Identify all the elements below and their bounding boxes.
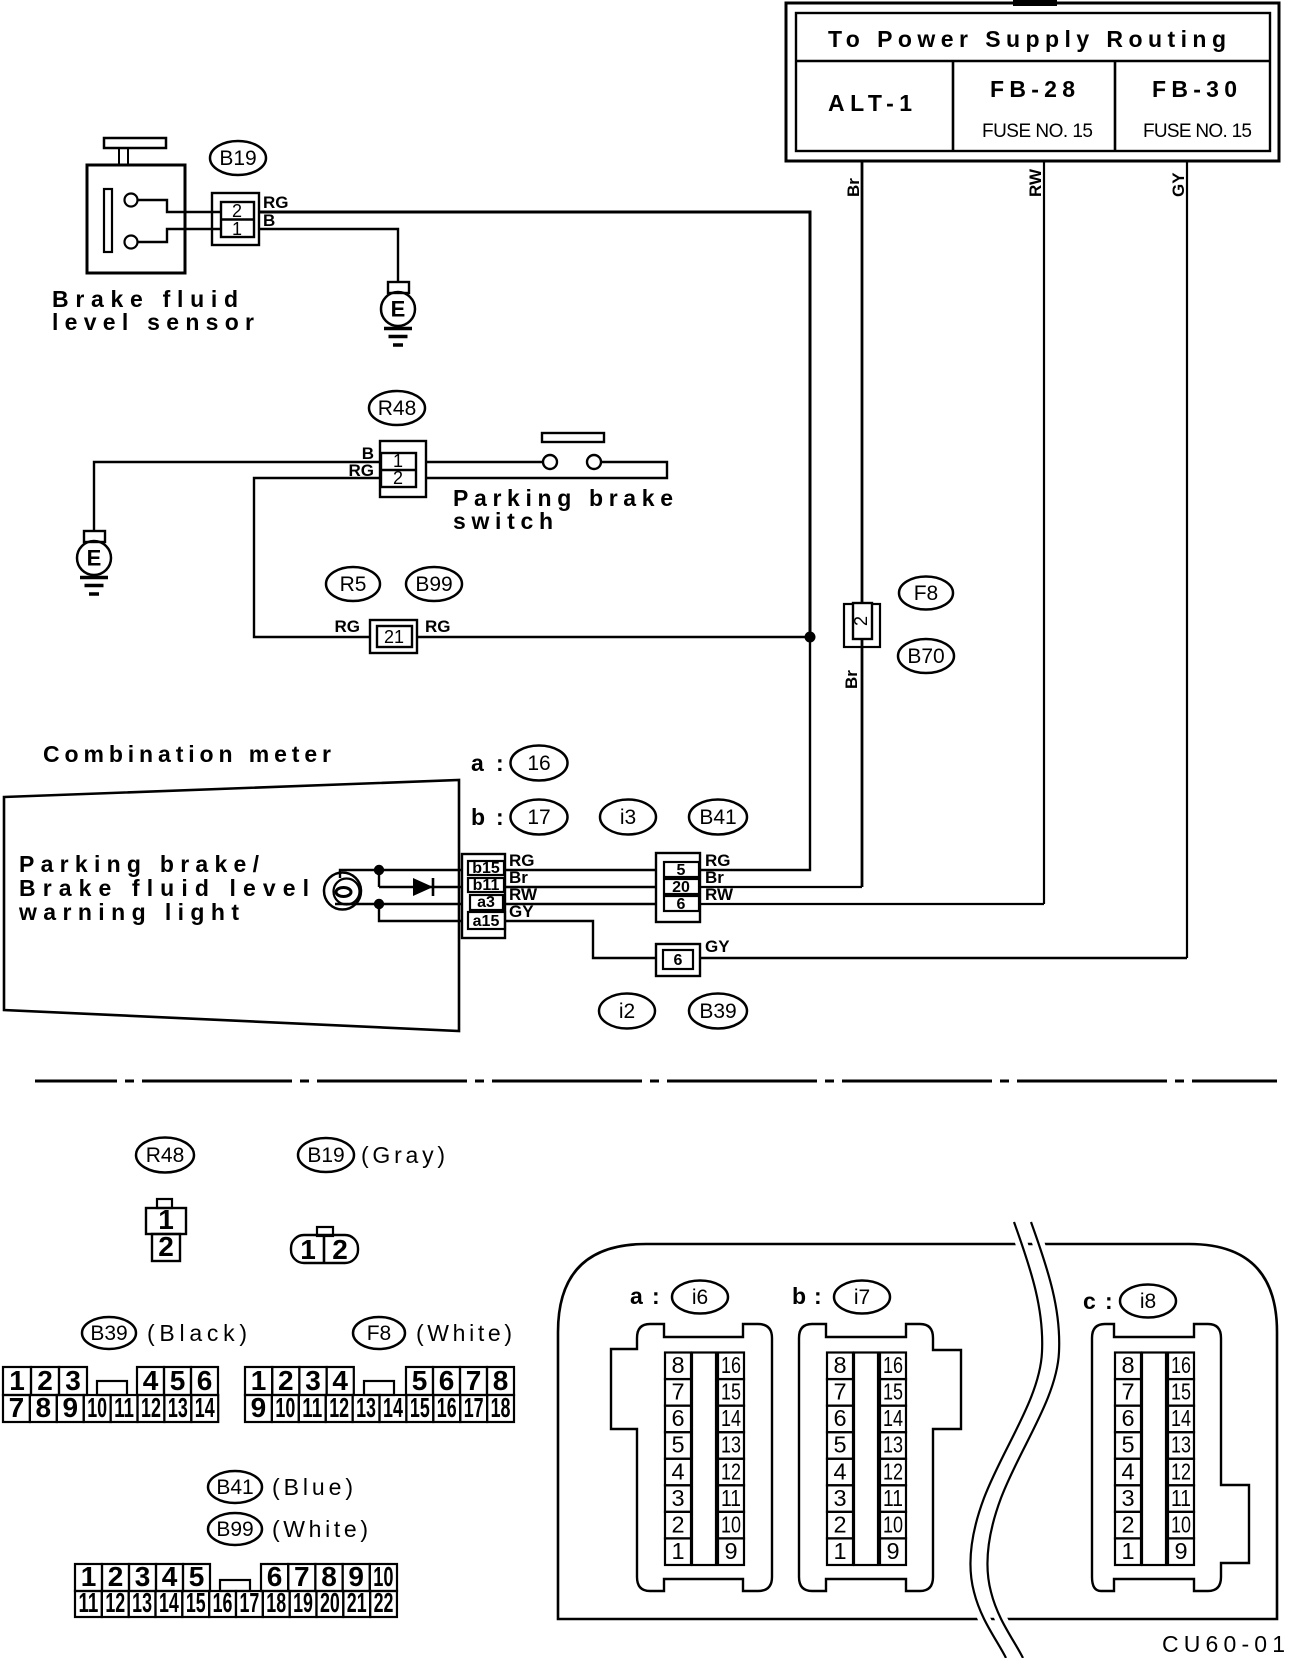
svg-text:15: 15 — [186, 1587, 206, 1618]
svg-text:16: 16 — [883, 1352, 903, 1378]
harness connector pins 5 20 6 — [656, 851, 734, 922]
svg-text:B41: B41 — [216, 1476, 253, 1499]
svg-text:10: 10 — [87, 1392, 107, 1423]
svg-text:6: 6 — [671, 1405, 684, 1431]
svg-text::: : — [652, 1283, 660, 1309]
wire RG harness to power node — [700, 637, 810, 870]
svg-text::: : — [814, 1283, 822, 1309]
node on a3 wire — [374, 899, 384, 909]
meter wire to a3 — [335, 903, 462, 906]
svg-text:11: 11 — [79, 1587, 99, 1618]
svg-text:b11: b11 — [473, 877, 500, 894]
svg-text:(White): (White) — [416, 1320, 512, 1346]
oval b:17 — [471, 800, 568, 835]
svg-text:GY: GY — [1169, 172, 1188, 197]
meter connector b:i7 — [792, 1281, 961, 1592]
svg-text::: : — [496, 750, 504, 776]
svg-text:17: 17 — [239, 1587, 259, 1618]
svg-text:19: 19 — [293, 1587, 313, 1618]
svg-text:2: 2 — [158, 1231, 174, 1262]
svg-text:17: 17 — [464, 1392, 484, 1423]
wire RW meter to harness connector — [505, 903, 656, 905]
svg-text:14: 14 — [159, 1587, 179, 1618]
wire B from switch to ground — [94, 462, 380, 531]
svg-text:13: 13 — [168, 1392, 188, 1423]
svg-text:12: 12 — [883, 1458, 903, 1484]
oval B99 detail — [208, 1513, 368, 1545]
oval F8 — [899, 577, 953, 610]
meter connector c:i8 — [1083, 1285, 1249, 1592]
connector oval R48 — [369, 391, 425, 425]
svg-text:Br: Br — [842, 670, 861, 689]
svg-text:B41: B41 — [699, 806, 736, 829]
svg-text:17: 17 — [527, 806, 550, 829]
svg-text:2: 2 — [851, 616, 871, 626]
connector R48 face view — [146, 1199, 186, 1262]
svg-text:(White): (White) — [272, 1516, 368, 1542]
connector oval B19 — [210, 141, 266, 175]
svg-text:B39: B39 — [90, 1322, 127, 1345]
svg-text:7: 7 — [1121, 1379, 1134, 1405]
svg-text:B19: B19 — [307, 1144, 344, 1167]
svg-text:9: 9 — [886, 1538, 899, 1564]
svg-text:F8: F8 — [914, 582, 939, 605]
svg-text:2: 2 — [1121, 1511, 1134, 1537]
harness break wavy line — [970, 1222, 1059, 1658]
svg-text:i7: i7 — [854, 1286, 870, 1309]
svg-text:8: 8 — [833, 1352, 846, 1378]
svg-text:R48: R48 — [146, 1144, 185, 1167]
label CU60-01 — [1162, 1631, 1285, 1657]
svg-text:i3: i3 — [620, 806, 636, 829]
svg-text:3: 3 — [833, 1485, 846, 1511]
svg-text:10: 10 — [275, 1392, 295, 1423]
svg-text:1: 1 — [232, 219, 242, 239]
svg-text:5: 5 — [671, 1432, 684, 1458]
svg-text:(Blue): (Blue) — [272, 1474, 353, 1500]
svg-text:16: 16 — [721, 1352, 741, 1378]
svg-text:RG: RG — [263, 193, 289, 212]
wire B from sensor to ground — [259, 229, 398, 282]
svg-text:a15: a15 — [473, 913, 500, 930]
svg-text:11: 11 — [883, 1485, 903, 1511]
meter connector a:i6 — [611, 1281, 772, 1592]
wire RG joint connector to junction node — [417, 636, 810, 638]
svg-text:11: 11 — [302, 1392, 322, 1423]
svg-text:10: 10 — [1171, 1511, 1191, 1537]
svg-text:F8: F8 — [367, 1322, 392, 1345]
combination meter connector container — [558, 1244, 1277, 1619]
svg-text:Br: Br — [844, 178, 863, 197]
svg-text:22: 22 — [374, 1587, 394, 1618]
ground E sensor — [381, 282, 415, 345]
wire Br from ALT-1 — [700, 161, 863, 887]
ground E switch — [77, 531, 111, 594]
svg-text:4: 4 — [1121, 1458, 1134, 1484]
svg-text:14: 14 — [883, 1405, 903, 1431]
oval i3 — [600, 800, 656, 835]
wire Br meter to harness connector — [505, 886, 656, 888]
svg-text:12: 12 — [1171, 1458, 1191, 1484]
svg-text::: : — [496, 804, 504, 830]
svg-text:2: 2 — [833, 1511, 846, 1537]
svg-text:20: 20 — [320, 1587, 340, 1618]
svg-text:2: 2 — [332, 1234, 348, 1265]
svg-text:B: B — [263, 211, 275, 230]
svg-text:21: 21 — [347, 1587, 367, 1618]
svg-text:3: 3 — [671, 1485, 684, 1511]
svg-text:FB-28: FB-28 — [990, 76, 1075, 102]
svg-text:5: 5 — [833, 1432, 846, 1458]
svg-text:FB-30: FB-30 — [1152, 76, 1237, 102]
wire GY from FB-30 — [700, 161, 1188, 958]
svg-text:B19: B19 — [219, 147, 256, 170]
svg-text:Brake fluid level: Brake fluid level — [19, 875, 309, 901]
svg-text:RW: RW — [705, 885, 734, 904]
meter wire to b15 — [340, 870, 462, 878]
meter wire to a15 — [379, 904, 462, 921]
svg-text:16: 16 — [213, 1587, 233, 1618]
svg-text:R5: R5 — [340, 573, 367, 596]
svg-text:15: 15 — [721, 1379, 741, 1405]
svg-text:1: 1 — [300, 1234, 316, 1265]
svg-text:b: b — [792, 1283, 806, 1309]
connector R48 pins — [349, 441, 427, 497]
svg-text:8: 8 — [1121, 1352, 1134, 1378]
svg-text:13: 13 — [721, 1432, 741, 1458]
svg-text:FUSE NO. 15: FUSE NO. 15 — [1143, 121, 1252, 142]
svg-text:(Black): (Black) — [147, 1320, 247, 1346]
oval F8 detail — [353, 1317, 512, 1349]
dashed separator — [35, 1080, 1277, 1083]
svg-text:4: 4 — [671, 1458, 684, 1484]
svg-text:ALT-1: ALT-1 — [828, 90, 912, 116]
wire RW from FB-28 — [700, 161, 1045, 904]
svg-text:8: 8 — [671, 1352, 684, 1378]
svg-text:14: 14 — [383, 1392, 403, 1423]
svg-text:GY: GY — [705, 937, 730, 956]
svg-text:10: 10 — [721, 1511, 741, 1537]
svg-text:RW: RW — [1026, 168, 1045, 197]
svg-text:13: 13 — [883, 1432, 903, 1458]
svg-text:i6: i6 — [692, 1286, 708, 1309]
svg-text:6: 6 — [1121, 1405, 1134, 1431]
svg-text:9: 9 — [251, 1392, 267, 1423]
label brake fluid level sensor — [52, 286, 254, 335]
oval B39 — [689, 994, 747, 1029]
warning lamp — [324, 873, 361, 910]
svg-text:7: 7 — [833, 1379, 846, 1405]
inline connector F8/B70 pin 2 — [842, 603, 880, 689]
svg-text:RG: RG — [425, 617, 451, 636]
svg-text:5: 5 — [677, 862, 686, 879]
svg-text:14: 14 — [721, 1405, 741, 1431]
svg-text:10: 10 — [883, 1511, 903, 1537]
svg-text:11: 11 — [721, 1485, 741, 1511]
oval R48 detail — [136, 1138, 194, 1173]
svg-text:a: a — [471, 750, 484, 776]
brake fluid level sensor body — [87, 138, 221, 273]
svg-text:a: a — [630, 1283, 643, 1309]
node on b15 wire — [374, 865, 384, 875]
svg-text:3: 3 — [1121, 1485, 1134, 1511]
svg-text:15: 15 — [1171, 1379, 1191, 1405]
joint connector 21 — [335, 617, 451, 653]
svg-text:18: 18 — [266, 1587, 286, 1618]
svg-text:6: 6 — [833, 1405, 846, 1431]
svg-text:i2: i2 — [619, 1000, 635, 1023]
connector B19 face view — [291, 1227, 358, 1265]
wire GY meter to lower connector — [505, 921, 656, 958]
svg-text:18: 18 — [491, 1392, 511, 1423]
connector B39 face view 14-pin — [3, 1365, 218, 1423]
oval R5 — [326, 567, 380, 601]
svg-text:6: 6 — [677, 896, 686, 913]
svg-text:c: c — [1083, 1288, 1096, 1314]
svg-text:13: 13 — [356, 1392, 376, 1423]
svg-text:8: 8 — [36, 1392, 52, 1423]
svg-text:R48: R48 — [378, 397, 417, 420]
diode — [379, 870, 462, 896]
svg-text:B99: B99 — [216, 1518, 253, 1541]
oval B39 detail — [82, 1317, 247, 1349]
svg-text:4: 4 — [833, 1458, 846, 1484]
svg-text:12: 12 — [721, 1458, 741, 1484]
svg-text:9: 9 — [62, 1392, 78, 1423]
lower connector pin 6 GY — [656, 937, 730, 976]
combination meter box — [4, 741, 459, 1031]
connector F8 face view 18-pin — [245, 1365, 514, 1423]
svg-text:11: 11 — [114, 1392, 134, 1423]
connector B41/B99 face view 22-pin — [75, 1561, 397, 1618]
svg-text::: : — [1105, 1288, 1113, 1314]
svg-text:i8: i8 — [1140, 1290, 1156, 1313]
oval B41 — [689, 800, 747, 835]
wire RG from switch to joint connector — [254, 478, 381, 637]
svg-text:b15: b15 — [472, 860, 500, 877]
parking brake switch — [426, 433, 667, 478]
svg-text:1: 1 — [1121, 1538, 1134, 1564]
svg-text:7: 7 — [9, 1392, 25, 1423]
svg-text:5: 5 — [1121, 1432, 1134, 1458]
oval B70 — [898, 639, 954, 673]
svg-text:B99: B99 — [415, 573, 452, 596]
svg-text:13: 13 — [1171, 1432, 1191, 1458]
oval a:16 — [471, 746, 568, 781]
svg-text:14: 14 — [195, 1392, 215, 1423]
svg-text:12: 12 — [141, 1392, 161, 1423]
svg-text:14: 14 — [1171, 1405, 1191, 1431]
oval B41 detail — [208, 1471, 353, 1503]
svg-text:16: 16 — [437, 1392, 457, 1423]
svg-text:12: 12 — [105, 1587, 125, 1618]
svg-text:7: 7 — [671, 1379, 684, 1405]
svg-text:B70: B70 — [907, 645, 944, 668]
connector B19 pins — [212, 193, 289, 245]
oval i2 — [599, 994, 655, 1029]
oval B99 — [406, 567, 462, 601]
svg-text:20: 20 — [672, 879, 690, 896]
svg-text:B39: B39 — [699, 1000, 736, 1023]
svg-text:16: 16 — [527, 752, 550, 775]
svg-text:2: 2 — [232, 201, 242, 221]
meter connector pins b15 b11 a3 a15 — [462, 851, 538, 938]
svg-text:21: 21 — [384, 627, 404, 647]
svg-text:9: 9 — [1174, 1538, 1187, 1564]
svg-text:E: E — [391, 297, 406, 322]
svg-text:11: 11 — [1171, 1485, 1191, 1511]
label warning light — [18, 851, 309, 925]
svg-text:E: E — [87, 546, 102, 571]
svg-text:15: 15 — [883, 1379, 903, 1405]
svg-text:RG: RG — [335, 617, 361, 636]
svg-text:1: 1 — [833, 1538, 846, 1564]
oval B19 detail — [298, 1138, 445, 1172]
svg-text:FUSE NO. 15: FUSE NO. 15 — [982, 121, 1093, 142]
svg-text:2: 2 — [671, 1511, 684, 1537]
svg-text:2: 2 — [393, 468, 403, 488]
wire RG from sensor to node — [259, 212, 810, 637]
svg-text:b: b — [471, 804, 485, 830]
junction node RG — [805, 632, 816, 643]
svg-text:12: 12 — [329, 1392, 349, 1423]
svg-text:15: 15 — [410, 1392, 430, 1423]
power supply routing box — [786, 0, 1279, 161]
svg-text:6: 6 — [674, 952, 683, 969]
svg-text:a3: a3 — [477, 894, 495, 911]
svg-text:1: 1 — [671, 1538, 684, 1564]
svg-text:13: 13 — [132, 1587, 152, 1618]
label parking brake switch — [453, 485, 673, 534]
svg-text:16: 16 — [1171, 1352, 1191, 1378]
wire RG meter to harness connector — [505, 869, 656, 871]
svg-text:9: 9 — [724, 1538, 737, 1564]
